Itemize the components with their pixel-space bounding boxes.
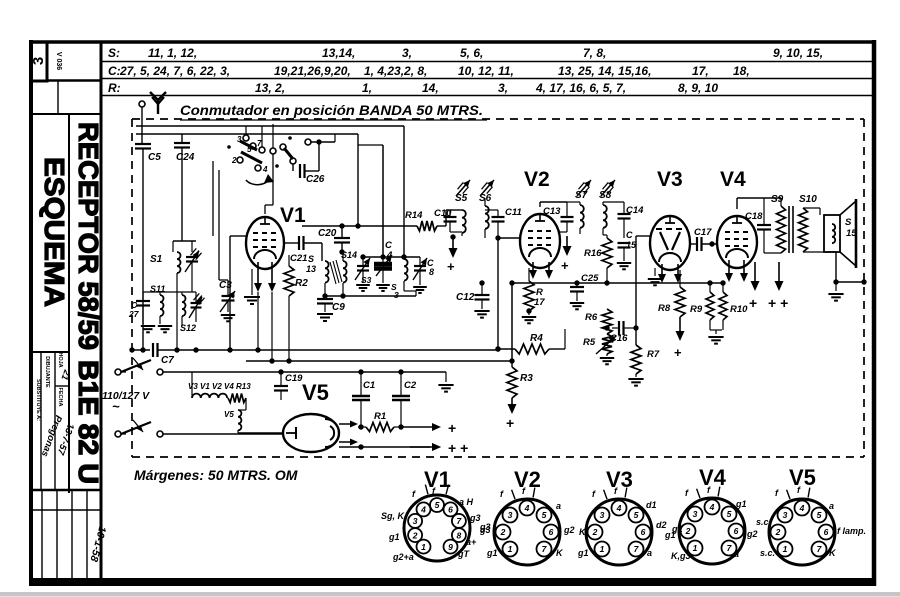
svg-text:1: 1 bbox=[508, 544, 513, 554]
RECEPTOR 58/59 rotated title bbox=[73, 122, 104, 350]
svg-text:V5: V5 bbox=[302, 380, 329, 405]
B+ out arrow 1 bbox=[401, 420, 456, 436]
svg-text:V3: V3 bbox=[606, 467, 633, 492]
C row numbers bbox=[119, 64, 750, 78]
svg-text:C3: C3 bbox=[219, 280, 232, 291]
wire V5 top rail bbox=[281, 369, 446, 374]
IF coil S8 bbox=[599, 190, 612, 235]
V2 filament arrows bbox=[529, 262, 553, 279]
IF coil S6 bbox=[479, 193, 492, 238]
svg-text:4: 4 bbox=[262, 165, 268, 174]
switch feed contact bbox=[305, 139, 335, 145]
svg-text:g2: g2 bbox=[746, 529, 758, 539]
wire switch drop b bbox=[219, 170, 228, 280]
capacitor C21 bbox=[284, 236, 322, 264]
svg-text:Conmutador en posición BANDA: Conmutador en posición BANDA 50 MTRS. bbox=[180, 103, 483, 118]
HOJA label bbox=[57, 352, 63, 367]
S5 S6 hatch arrows bbox=[456, 180, 494, 196]
svg-text:18,: 18, bbox=[733, 64, 750, 78]
svg-text:C24: C24 bbox=[176, 152, 195, 163]
padder C4 bbox=[374, 240, 393, 291]
wire mains lower bbox=[163, 433, 283, 435]
svg-text:S1: S1 bbox=[150, 254, 163, 265]
svg-text:4: 4 bbox=[799, 503, 805, 513]
socket V5 label bbox=[789, 465, 816, 490]
resistor R8 bbox=[658, 270, 685, 360]
svg-text:C13: C13 bbox=[543, 206, 561, 217]
S11 ground bbox=[141, 326, 155, 332]
svg-text:S: S bbox=[308, 254, 314, 264]
svg-text:5: 5 bbox=[727, 509, 732, 519]
svg-text:8, 9, 10: 8, 9, 10 bbox=[678, 81, 718, 95]
svg-text:S: S bbox=[845, 217, 852, 228]
capacitor C19 bbox=[274, 369, 303, 400]
svg-text:2: 2 bbox=[231, 156, 237, 165]
svg-text:6: 6 bbox=[549, 527, 554, 537]
wire AVC lower bbox=[246, 358, 515, 363]
wire V5 cathode out bbox=[339, 442, 430, 450]
IF coil S5 bbox=[450, 193, 468, 238]
wire bus drop 2 bbox=[358, 145, 383, 257]
svg-text:R16: R16 bbox=[584, 248, 602, 259]
svg-text:1: 1 bbox=[693, 543, 698, 553]
svg-text:13,14,: 13,14, bbox=[322, 46, 355, 60]
wire tank bottom bbox=[322, 293, 416, 298]
resistor R4 bbox=[495, 329, 565, 354]
screen bus bbox=[509, 280, 725, 285]
wire mains upper bbox=[163, 371, 281, 373]
svg-text:5: 5 bbox=[435, 500, 440, 510]
B+ out arrow 2 bbox=[410, 440, 468, 456]
tube V4 label bbox=[720, 168, 746, 191]
svg-text:3: 3 bbox=[783, 510, 788, 520]
capacitor C9 bbox=[317, 299, 345, 321]
wire top bus 1 bbox=[136, 125, 404, 127]
svg-text:14,: 14, bbox=[422, 81, 439, 95]
svg-text:8: 8 bbox=[429, 267, 434, 277]
S5 bottom arrow bbox=[446, 232, 458, 274]
svg-text:a: a bbox=[734, 549, 739, 559]
svg-text:C: C bbox=[626, 230, 633, 240]
resistor R9 bbox=[690, 283, 714, 330]
svg-text:+: + bbox=[506, 415, 514, 431]
switch contact 7 bbox=[257, 126, 265, 153]
svg-text:a: a bbox=[556, 501, 561, 511]
wire plate to tank bbox=[321, 243, 323, 261]
V 036 code box bbox=[47, 52, 101, 81]
svg-text:+ +: + + bbox=[448, 440, 468, 456]
svg-text:S10: S10 bbox=[799, 194, 817, 205]
switch contact 4 bbox=[255, 165, 268, 174]
svg-text:C9: C9 bbox=[332, 302, 345, 313]
svg-text:110/127 V: 110/127 V bbox=[102, 390, 150, 402]
svg-text:V4: V4 bbox=[720, 168, 746, 191]
svg-text:R3: R3 bbox=[520, 373, 533, 384]
svg-text:3: 3 bbox=[508, 510, 513, 520]
svg-text:6: 6 bbox=[824, 527, 829, 537]
title small-cell borders bbox=[31, 352, 101, 490]
svg-text:17,: 17, bbox=[692, 64, 709, 78]
trimmer S3a bbox=[355, 257, 372, 291]
title block col divider bbox=[68, 114, 70, 493]
svg-text:SUBSTITUYE A:: SUBSTITUYE A: bbox=[35, 379, 41, 421]
row label C bbox=[108, 64, 121, 78]
svg-text:f lamp.: f lamp. bbox=[837, 526, 866, 536]
V5 plate arrows bbox=[339, 421, 358, 446]
svg-text:R7: R7 bbox=[647, 349, 660, 360]
svg-text:R14: R14 bbox=[405, 210, 423, 221]
wire speaker return bbox=[828, 252, 866, 301]
tube V3 bbox=[650, 216, 690, 270]
mains voltage label bbox=[102, 390, 150, 414]
svg-text:S8: S8 bbox=[599, 190, 612, 201]
switch contact right B bbox=[290, 158, 296, 164]
svg-text:g2: g2 bbox=[563, 525, 575, 535]
svg-text:7, 8,: 7, 8, bbox=[583, 46, 606, 60]
svg-text:5: 5 bbox=[542, 510, 547, 520]
capacitor C5 bbox=[135, 144, 161, 350]
Pregonas signature bbox=[39, 414, 64, 458]
socket V2 bbox=[494, 499, 560, 565]
svg-text:3: 3 bbox=[413, 516, 418, 526]
svg-text:5: 5 bbox=[817, 510, 822, 520]
tube V5 bbox=[283, 414, 339, 452]
svg-text:RECEPTOR 58/59: RECEPTOR 58/59 bbox=[73, 122, 104, 350]
svg-text:1: 1 bbox=[600, 544, 605, 554]
capacitor C27 bbox=[128, 292, 150, 324]
S row numbers bbox=[148, 46, 823, 60]
capacitor C16 bbox=[604, 321, 638, 344]
V1 grid wire bbox=[230, 236, 246, 350]
svg-text:V5: V5 bbox=[224, 410, 234, 419]
capacitor C13 bbox=[543, 202, 574, 232]
capacitor C15 bbox=[617, 230, 637, 269]
resistor R6 bbox=[585, 303, 612, 334]
svg-text:DIBUJANTE: DIBUJANTE bbox=[44, 356, 50, 388]
svg-text:3: 3 bbox=[600, 510, 605, 520]
svg-text:17: 17 bbox=[534, 297, 545, 308]
svg-text:gT: gT bbox=[457, 549, 470, 559]
socket V2 labels bbox=[479, 501, 575, 558]
svg-text:R:: R: bbox=[108, 81, 121, 95]
chassis wire with C7 bbox=[129, 343, 500, 366]
svg-text:R6: R6 bbox=[585, 312, 598, 323]
svg-text:C20: C20 bbox=[318, 228, 337, 239]
revision table bbox=[31, 490, 101, 585]
svg-text:R8: R8 bbox=[658, 303, 671, 314]
svg-text:9: 9 bbox=[448, 542, 453, 552]
svg-text:R1: R1 bbox=[374, 411, 386, 422]
sheet number box bbox=[30, 42, 47, 81]
resistor R7 bbox=[628, 236, 659, 386]
svg-text:S9: S9 bbox=[771, 194, 784, 205]
mains terminal upper bbox=[115, 369, 126, 375]
capacitor C26 bbox=[293, 142, 325, 185]
coil S12 bbox=[180, 292, 196, 333]
socket V5 labels bbox=[756, 501, 866, 558]
switch contact right A bbox=[280, 144, 286, 150]
rail end ground bbox=[438, 372, 453, 392]
svg-text:1: 1 bbox=[421, 542, 426, 552]
svg-text:g1: g1 bbox=[388, 532, 400, 542]
svg-text:Márgenes: 50 MTRS. OM: Márgenes: 50 MTRS. OM bbox=[134, 467, 298, 483]
title block right edge bbox=[100, 42, 103, 582]
svg-text:S12: S12 bbox=[180, 323, 196, 333]
svg-text:ESQUEMA: ESQUEMA bbox=[39, 157, 70, 307]
svg-text:6: 6 bbox=[734, 526, 739, 536]
svg-text:V3 V1 V2 V4 R13: V3 V1 V2 V4 R13 bbox=[188, 382, 251, 391]
capacitor C14 bbox=[603, 202, 644, 238]
svg-text:+: + bbox=[561, 258, 569, 273]
svg-text:V1: V1 bbox=[280, 204, 306, 227]
S14 core hatch bbox=[330, 260, 342, 284]
svg-text:15: 15 bbox=[846, 228, 857, 239]
output transformer S10 bbox=[799, 194, 837, 252]
capacitor C1 bbox=[352, 372, 375, 427]
socket V1 label bbox=[424, 467, 451, 492]
socket V3 f ticks bbox=[592, 486, 627, 499]
capacitor C25 bbox=[570, 273, 599, 309]
svg-text:2: 2 bbox=[592, 527, 598, 537]
svg-text:27, 5, 24, 7, 6, 22, 3,: 27, 5, 24, 7, 6, 22, 3, bbox=[119, 64, 230, 78]
C13 arrow bbox=[561, 236, 572, 273]
svg-text:C11: C11 bbox=[505, 207, 522, 218]
svg-text:13, 25, 14, 15,16,: 13, 25, 14, 15,16, bbox=[558, 64, 651, 78]
socket V4 label bbox=[699, 465, 727, 490]
svg-text:3,: 3, bbox=[402, 46, 412, 60]
B+ arrow double bbox=[768, 262, 788, 311]
svg-text:10, 12, 11,: 10, 12, 11, bbox=[458, 64, 514, 78]
socket V3 bbox=[586, 499, 652, 565]
svg-text:1, 4,23,2, 8,: 1, 4,23,2, 8, bbox=[364, 64, 427, 78]
wire S13 leads bbox=[322, 243, 325, 296]
svg-text:4: 4 bbox=[709, 502, 715, 512]
svg-text:1,: 1, bbox=[362, 81, 372, 95]
svg-text:C17: C17 bbox=[694, 227, 712, 238]
oscillator coil S3 bbox=[391, 254, 408, 300]
svg-text:4: 4 bbox=[420, 505, 426, 515]
wire bus drop 1 bbox=[357, 134, 359, 226]
svg-text:C7: C7 bbox=[161, 355, 174, 366]
B+ arrow single bbox=[749, 262, 760, 311]
svg-text:19,21,26,9,20,: 19,21,26,9,20, bbox=[274, 64, 351, 78]
B1E 82 U rotated title bbox=[73, 360, 104, 484]
svg-text:V4: V4 bbox=[699, 465, 727, 490]
svg-text:g1: g1 bbox=[486, 548, 498, 558]
wire S1 vertical bbox=[195, 240, 197, 242]
svg-text:4, 17, 16, 6, 5, 7,: 4, 17, 16, 6, 5, 7, bbox=[535, 81, 626, 95]
svg-text:d2: d2 bbox=[656, 520, 667, 530]
socket V3 labels bbox=[577, 500, 676, 558]
V1 cathode ground bbox=[244, 269, 260, 304]
svg-text:C12: C12 bbox=[456, 292, 475, 303]
trimmer cap S1 bbox=[185, 241, 201, 292]
SUBSTITUYE A label bbox=[35, 379, 41, 421]
switch detent dots bbox=[227, 136, 292, 168]
svg-text:g2+a: g2+a bbox=[392, 552, 414, 562]
wire C11 to V2 grid bbox=[495, 235, 521, 240]
svg-text:C21: C21 bbox=[290, 253, 307, 264]
R9 R10 ground bbox=[708, 330, 723, 344]
capacitor C17 bbox=[690, 227, 718, 251]
svg-text:g3: g3 bbox=[479, 522, 491, 532]
svg-text:R2: R2 bbox=[295, 278, 308, 289]
V1 filament arrows bbox=[254, 262, 276, 292]
variable R5 bbox=[583, 334, 616, 364]
capacitor C2 bbox=[392, 372, 417, 427]
svg-text:3,: 3, bbox=[498, 81, 508, 95]
svg-text:s.c.: s.c. bbox=[760, 548, 775, 558]
capacitor C11 bbox=[485, 207, 522, 238]
coil S13 bbox=[306, 254, 342, 283]
scanner grey strip at bottom bbox=[0, 592, 900, 597]
svg-text:g3: g3 bbox=[469, 513, 481, 523]
svg-text:5: 5 bbox=[634, 510, 639, 520]
switch wiper bar A bbox=[240, 141, 257, 150]
row label R bbox=[108, 81, 121, 95]
wire top bus 2 bbox=[136, 133, 358, 135]
svg-text:+: + bbox=[749, 295, 757, 311]
svg-text:C26: C26 bbox=[306, 174, 325, 185]
resistor R1 bbox=[358, 411, 404, 432]
svg-text:S3: S3 bbox=[361, 275, 372, 285]
svg-text:V2: V2 bbox=[524, 168, 550, 191]
wire screen bus drop bbox=[511, 283, 513, 361]
hoja number 21 bbox=[59, 368, 72, 382]
svg-text:g1: g1 bbox=[577, 548, 589, 558]
tube V4 bbox=[717, 216, 757, 268]
svg-text:6: 6 bbox=[641, 527, 646, 537]
wire bus drop 3 bbox=[403, 126, 405, 257]
V4 filament arrows bbox=[725, 260, 748, 282]
svg-text:4: 4 bbox=[616, 503, 622, 513]
svg-text:S:: S: bbox=[108, 46, 120, 60]
svg-text:+ +: + + bbox=[768, 295, 788, 311]
V2 top cap wire bbox=[540, 202, 567, 207]
resistor R17 bbox=[522, 268, 545, 323]
chassis dashed boundary bbox=[132, 119, 864, 457]
tube V5 label bbox=[302, 380, 329, 405]
transformer core bbox=[789, 206, 793, 253]
wire top cap V1 bbox=[265, 154, 273, 214]
svg-text:1: 1 bbox=[783, 544, 788, 554]
svg-text:9, 10, 15,: 9, 10, 15, bbox=[773, 46, 823, 60]
svg-text:s.c.: s.c. bbox=[756, 517, 771, 527]
socket V4 bbox=[679, 498, 745, 564]
switch rotation arrow bbox=[246, 174, 274, 185]
tube V1 label bbox=[280, 204, 306, 227]
switch contact 5 bbox=[247, 143, 256, 154]
socket V1 bbox=[404, 495, 470, 561]
svg-text:V1: V1 bbox=[424, 467, 451, 492]
svg-text:a: a bbox=[829, 501, 834, 511]
svg-text:2: 2 bbox=[500, 527, 506, 537]
switch wiper bar B bbox=[241, 152, 262, 163]
wire switch vertical a bbox=[334, 134, 336, 142]
tube V3 label bbox=[657, 168, 683, 191]
trimmer C3 bbox=[219, 280, 235, 321]
svg-text:R5: R5 bbox=[583, 337, 596, 348]
switch contact mid bbox=[270, 124, 276, 154]
wire switch drop a bbox=[213, 161, 237, 236]
svg-text:V2: V2 bbox=[514, 467, 541, 492]
svg-text:Sg, K: Sg, K bbox=[381, 511, 406, 521]
switch contact 2 bbox=[231, 156, 243, 165]
IF coil S7 bbox=[567, 190, 588, 234]
empty cells under code box bbox=[31, 81, 101, 114]
switch contact 3 bbox=[237, 126, 249, 144]
socket V2 label bbox=[514, 467, 541, 492]
svg-text:R10: R10 bbox=[730, 304, 748, 315]
heater chain labels bbox=[188, 382, 251, 391]
ESQUEMA rotated title bbox=[39, 157, 70, 307]
margenes caption bbox=[134, 467, 298, 483]
svg-text:7: 7 bbox=[257, 139, 262, 148]
svg-text:C:: C: bbox=[108, 64, 121, 78]
svg-text:g1: g1 bbox=[671, 524, 683, 534]
svg-text:R9: R9 bbox=[690, 304, 703, 315]
svg-text:2: 2 bbox=[685, 526, 691, 536]
socket V1 f ticks bbox=[412, 485, 449, 499]
svg-text:4: 4 bbox=[524, 503, 530, 513]
V4 top cap wire bbox=[737, 198, 764, 209]
resistor R2 bbox=[284, 255, 308, 361]
wire long vertical to AVC bbox=[497, 238, 499, 349]
resistor R16 bbox=[584, 235, 612, 283]
top rail over tank bbox=[302, 223, 417, 243]
S12 ground bbox=[158, 326, 172, 332]
svg-text:6: 6 bbox=[448, 505, 453, 515]
svg-text:C5: C5 bbox=[148, 152, 161, 163]
fecha date 13-7-57 bbox=[54, 422, 76, 457]
mains terminal lower bbox=[115, 431, 126, 437]
svg-text:+: + bbox=[674, 345, 682, 360]
svg-text:C1: C1 bbox=[363, 380, 375, 391]
capacitor C12 bbox=[456, 280, 490, 317]
svg-text:13: 13 bbox=[306, 264, 316, 274]
svg-text:V 036: V 036 bbox=[55, 52, 62, 70]
svg-text:a: a bbox=[647, 548, 652, 558]
S7 S8 hatch arrows bbox=[577, 180, 615, 196]
socket V3 label bbox=[606, 467, 633, 492]
resistor R3 bbox=[506, 361, 533, 431]
resistor R10 bbox=[719, 283, 748, 330]
socket V4 f ticks bbox=[685, 485, 720, 498]
trimmer C8 bbox=[413, 257, 434, 293]
tube V1 bbox=[246, 217, 284, 269]
capacitor C24 bbox=[174, 134, 195, 241]
row label S bbox=[108, 46, 120, 60]
socket V5 f ticks bbox=[775, 485, 810, 499]
header table row lines bbox=[101, 62, 874, 96]
heater chain bbox=[192, 372, 246, 410]
svg-text:+: + bbox=[448, 420, 456, 436]
socket V2 f ticks bbox=[500, 486, 535, 499]
svg-text:C2: C2 bbox=[404, 380, 417, 391]
socket V4 labels bbox=[671, 499, 758, 561]
capacitor C20 bbox=[318, 226, 350, 255]
svg-text:~: ~ bbox=[112, 399, 120, 414]
svg-text:3: 3 bbox=[30, 57, 47, 65]
svg-text:11, 1, 12,: 11, 1, 12, bbox=[148, 46, 197, 60]
svg-text:5, 6,: 5, 6, bbox=[460, 46, 483, 60]
revision date 10-1-58 bbox=[87, 525, 108, 563]
svg-text:C19: C19 bbox=[285, 373, 303, 384]
socket V5 bbox=[769, 499, 835, 565]
speaker S15 bbox=[820, 199, 857, 268]
trimmer S12a bbox=[189, 292, 204, 322]
tube V2 label bbox=[524, 168, 550, 191]
